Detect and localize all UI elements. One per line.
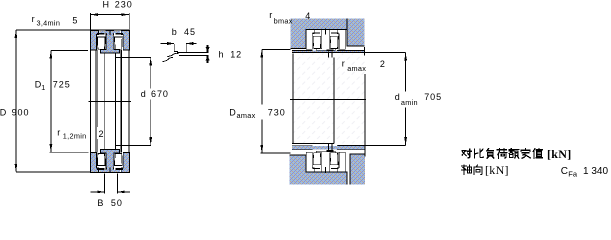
svg-text:[kN]: [kN] <box>485 163 509 177</box>
bore silhouette lines between sections <box>90 50 128 153</box>
svg-text:900: 900 <box>12 107 30 117</box>
svg-text:r: r <box>342 59 345 69</box>
svg-text:1,2min: 1,2min <box>63 132 87 141</box>
dimension Damax 730 <box>229 49 290 153</box>
svg-text:r: r <box>269 10 272 20</box>
faint shaft hatch <box>293 53 365 143</box>
shaft silhouette lines <box>293 53 365 156</box>
housing washer right (bottom section) <box>121 153 129 173</box>
bearing top section (in housing) <box>306 30 345 51</box>
svg-text:50: 50 <box>111 198 123 208</box>
break squiggle <box>163 53 179 62</box>
svg-text:d: d <box>395 92 400 102</box>
centerline right figure <box>290 98 366 100</box>
center joint line (bottom section) <box>109 168 111 174</box>
dimension H 230 <box>90 0 132 29</box>
svg-text:730: 730 <box>268 108 286 118</box>
svg-text:2: 2 <box>380 59 385 69</box>
centerline left figure <box>88 101 131 103</box>
svg-text:bmax: bmax <box>274 17 293 26</box>
char 轴 <box>462 165 472 175</box>
char 对 <box>462 149 472 158</box>
row unit [kN] <box>485 163 509 177</box>
center joint line (top section) <box>109 29 111 35</box>
shaft shoulder sliver top <box>292 50 405 52</box>
label r3,4min 5 <box>32 14 78 27</box>
dimension damin 705 <box>337 52 442 145</box>
svg-text:3,4min: 3,4min <box>37 18 61 27</box>
char 比 <box>475 149 484 158</box>
char 荷 <box>497 148 507 158</box>
roller left (top section) <box>97 37 105 49</box>
dimension B 50 <box>91 173 130 208</box>
housing washer right (top section) <box>121 30 129 50</box>
svg-text:230: 230 <box>115 0 133 10</box>
roller left (bottom section) <box>97 153 105 165</box>
heading 对比负荷额定值 [kN] (bold) <box>462 148 542 158</box>
svg-text:5: 5 <box>72 16 77 26</box>
shaft washer (top section) <box>100 30 119 53</box>
char 向 <box>474 165 482 175</box>
dimension d 670 <box>115 58 169 146</box>
cage bars bottom (right figure) <box>306 167 345 173</box>
svg-text:C: C <box>561 166 568 177</box>
svg-text:d: d <box>141 89 146 99</box>
svg-text:h: h <box>219 50 224 60</box>
svg-text:amax: amax <box>237 111 256 120</box>
cage bar right (top section) <box>112 31 123 35</box>
dimension D1 725 <box>35 50 89 152</box>
svg-text:r: r <box>57 128 60 138</box>
row label 轴向 [kN] <box>462 165 483 175</box>
top section top edge <box>90 29 129 31</box>
housing block top <box>291 18 365 48</box>
dimension D 900 <box>0 30 91 172</box>
cage bar left (top section) <box>97 31 108 35</box>
roller right (top section) <box>115 37 123 49</box>
svg-text:725: 725 <box>53 79 71 89</box>
heading unit [kN] bold <box>547 147 572 161</box>
shaft shoulder sliver bottom <box>292 144 364 150</box>
svg-text:H: H <box>103 0 110 10</box>
housing washer left (bottom section) <box>90 153 98 173</box>
cage bar right (bottom section) <box>112 168 123 172</box>
svg-text:D: D <box>229 108 236 118</box>
svg-text:45: 45 <box>184 27 196 37</box>
housing washer left (top section) <box>90 30 98 50</box>
svg-text:670: 670 <box>151 89 169 99</box>
svg-text:1 340: 1 340 <box>583 166 608 177</box>
svg-text:2: 2 <box>99 129 104 139</box>
svg-text:12: 12 <box>230 50 242 60</box>
svg-text:r: r <box>32 14 35 24</box>
label ramax 2 <box>342 59 386 74</box>
dimension b arrows <box>160 42 196 45</box>
shaft shoulder edge tick <box>364 47 366 56</box>
svg-text:[kN]: [kN] <box>547 147 572 161</box>
svg-text:4: 4 <box>305 11 310 21</box>
washer rib profile <box>174 44 208 55</box>
shaft washer locating fork bottom <box>326 144 333 152</box>
svg-text:amin: amin <box>401 98 418 107</box>
label b 45 <box>172 27 196 37</box>
value CFa 1340 <box>561 166 609 179</box>
cage bar left (bottom section) <box>97 168 108 172</box>
dimension h 12 <box>206 45 242 63</box>
svg-text:B: B <box>97 198 103 208</box>
char 值 <box>533 149 542 159</box>
svg-text:1: 1 <box>41 83 45 92</box>
bottom section bottom edge <box>90 171 129 173</box>
housing block bottom <box>290 154 366 184</box>
shaft washer (bottom section) <box>100 150 119 173</box>
shaft washer locating fork top <box>326 50 333 58</box>
svg-text:705: 705 <box>424 92 442 102</box>
bearing bottom section (in housing) <box>306 151 345 172</box>
svg-text:amax: amax <box>347 64 366 73</box>
label r1,2min 2 <box>57 127 104 141</box>
label rbmax 4 <box>269 10 310 25</box>
char 定 <box>521 148 530 158</box>
roller right (bottom section) <box>115 153 123 165</box>
svg-text:D: D <box>0 107 7 117</box>
svg-text:Fa: Fa <box>568 170 578 179</box>
svg-text:b: b <box>172 27 177 37</box>
cage bars top (right figure) <box>306 29 345 35</box>
char 负 <box>487 149 494 159</box>
char 额 <box>509 148 519 158</box>
